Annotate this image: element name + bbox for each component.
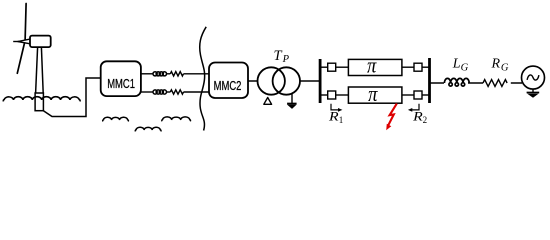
svg-text:L: L [452,57,461,72]
upper DC line resistor [170,72,183,76]
cable break squiggle [200,27,206,131]
lower breaker right [414,91,422,99]
svg-text:1: 1 [339,115,344,125]
lower DC line wire [141,91,209,93]
turbine foundation [35,93,43,111]
relay R1 label [328,110,344,125]
grid inductor LG [444,78,469,86]
svg-text:T: T [274,48,283,64]
relay R2 arrow [408,104,419,112]
upper pi section box [348,59,402,75]
relay R2 label [412,110,427,125]
grid resistor RG [483,80,507,87]
MMC2 converter box [209,63,248,99]
AC grid source [522,66,545,89]
upper breaker left [328,63,336,71]
wind turbine hub cone [18,39,30,44]
wind turbine hub spike [13,41,19,43]
svg-text:π: π [367,53,377,78]
upper breaker right [414,63,422,71]
relay R1 arrow [331,104,342,112]
lower DC line resistor [170,90,183,94]
wire from turbine to MMC1 [43,78,100,117]
sea squiggle 3 [162,117,191,121]
lower breaker left [328,91,336,99]
bus bar B1 [319,59,322,103]
lower pi section box [348,87,402,103]
svg-text:MMC2: MMC2 [214,79,242,93]
lower DC line inductor [153,90,166,94]
grid branch wires [431,82,523,84]
svg-text:π: π [368,81,378,106]
upper DC line inductor [153,72,166,76]
svg-text:2: 2 [423,115,428,125]
wind turbine nacelle [30,36,51,48]
bus bar B2 [428,58,431,103]
svg-text:G: G [461,63,469,74]
svg-text:MMC1: MMC1 [107,77,135,91]
AC source ground [527,89,540,97]
svg-text:R: R [328,110,340,124]
transformer ground [287,94,297,108]
wind turbine tower [36,47,44,93]
LG label [452,57,469,74]
upper DC line wire [141,73,209,75]
wire transformer to bus1 [300,80,320,82]
delta winding symbol [264,98,272,105]
RG label [491,57,509,74]
lower pi-line: wires [321,94,429,96]
MMC1 converter box [101,61,141,96]
svg-text:G: G [501,63,509,74]
sea squiggle 1 [103,117,129,121]
upper pi-line: wires [321,66,429,68]
transformer TP circles [258,67,285,94]
svg-text:P: P [282,54,290,65]
wire MMC2 to transformer [248,80,258,82]
sea squiggle 2 [135,127,161,131]
wind turbine blades [17,4,26,74]
fault lightning bolt [386,104,397,131]
sea waterline [3,97,80,102]
svg-text:R: R [491,57,501,72]
